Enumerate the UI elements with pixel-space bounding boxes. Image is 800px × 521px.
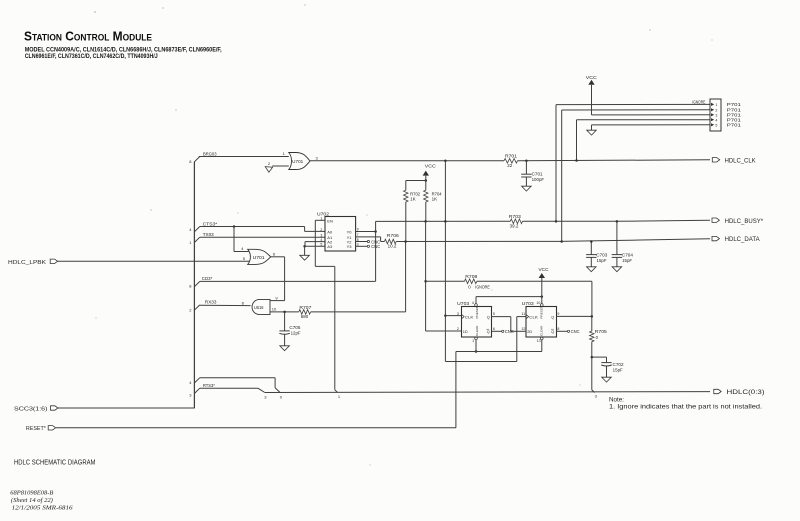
svg-text:IGNORE: IGNORE: [692, 100, 705, 105]
svg-text:1D: 1D: [463, 329, 468, 334]
svg-text:5: 5: [320, 243, 322, 247]
svg-text:11: 11: [521, 312, 525, 316]
svg-text:Y0: Y0: [347, 229, 353, 234]
svg-text:4: 4: [189, 227, 192, 232]
svg-text:12/1/2005 SMR-6816: 12/1/2005 SMR-6816: [12, 504, 74, 511]
svg-text:RTS3*: RTS3*: [203, 383, 215, 389]
svg-text:2: 2: [268, 161, 271, 166]
svg-text:13: 13: [537, 339, 541, 343]
svg-text:CTS3*: CTS3*: [203, 221, 218, 227]
svg-text:(Sheet 14 of 22): (Sheet 14 of 22): [11, 497, 53, 504]
svg-text:4: 4: [472, 301, 474, 305]
svg-text:1K: 1K: [432, 197, 438, 202]
svg-text:CLEAR: CLEAR: [539, 325, 543, 336]
svg-text:CNC: CNC: [571, 329, 580, 334]
svg-text:HDLC_LPBK: HDLC_LPBK: [8, 260, 47, 266]
svg-text:2: 2: [457, 327, 459, 331]
svg-text:BRG03: BRG03: [203, 151, 217, 157]
svg-text:C704: C704: [622, 253, 634, 258]
svg-text:CNC: CNC: [371, 244, 380, 249]
svg-text:1: 1: [189, 240, 192, 245]
svg-text:A3: A3: [327, 244, 333, 249]
svg-text:1K: 1K: [410, 197, 416, 202]
svg-text:R706: R706: [387, 233, 400, 238]
svg-text:R704: R704: [432, 191, 442, 196]
svg-text:R702: R702: [410, 191, 420, 196]
svg-text:68P81098E08-B: 68P81098E08-B: [10, 490, 53, 497]
svg-text:HDLC SCHEMATIC DIAGRAM: HDLC SCHEMATIC DIAGRAM: [14, 458, 96, 467]
svg-text:U516: U516: [254, 305, 264, 310]
svg-text:A0: A0: [327, 229, 333, 234]
svg-text:R708: R708: [465, 274, 478, 279]
svg-text:1: 1: [283, 151, 286, 156]
svg-text:Q: Q: [487, 330, 490, 334]
svg-text:7: 7: [357, 233, 359, 237]
svg-text:2D: 2D: [527, 329, 532, 334]
svg-text:P701: P701: [727, 123, 742, 128]
svg-text:1: 1: [338, 394, 341, 399]
svg-text:1. Ignore indicates that the p: 1. Ignore indicates that the part is not…: [609, 404, 762, 411]
svg-text:Q: Q: [487, 315, 490, 319]
svg-text:Station Control Module: Station Control Module: [24, 29, 152, 44]
svg-text:1: 1: [320, 217, 322, 221]
svg-text:Q: Q: [551, 315, 554, 319]
svg-text:8: 8: [557, 327, 559, 331]
svg-text:EN: EN: [327, 218, 333, 223]
svg-text:680: 680: [301, 314, 309, 319]
svg-text:CLEAR: CLEAR: [475, 325, 479, 336]
svg-text:5: 5: [243, 256, 246, 261]
svg-text:Q: Q: [551, 330, 554, 334]
svg-text:U702: U702: [317, 211, 330, 216]
svg-text:3: 3: [320, 233, 322, 237]
svg-text:15pF: 15pF: [597, 258, 607, 263]
svg-text:10: 10: [272, 306, 277, 311]
svg-text:VCC: VCC: [425, 163, 437, 168]
svg-text:6: 6: [273, 251, 276, 256]
svg-text:HDLC_DATA: HDLC_DATA: [725, 236, 761, 243]
svg-text:Note:: Note:: [609, 397, 624, 404]
svg-text:4: 4: [715, 118, 717, 122]
svg-text:10: 10: [536, 301, 540, 305]
svg-text:10.2: 10.2: [388, 244, 397, 249]
svg-text:VCC: VCC: [539, 267, 550, 272]
svg-text:3: 3: [595, 394, 598, 399]
svg-text:R707: R707: [299, 305, 312, 310]
svg-text:2: 2: [715, 108, 717, 112]
svg-text:15pF: 15pF: [622, 258, 632, 263]
svg-text:9: 9: [557, 312, 559, 316]
svg-text:1: 1: [715, 103, 717, 107]
svg-text:2: 2: [320, 228, 322, 232]
svg-text:CLN6961E/F, CLN7361C/D, CLN746: CLN6961E/F, CLN7361C/D, CLN7462C/D, TTN4…: [25, 53, 158, 60]
svg-text:0: 0: [596, 335, 599, 340]
svg-text:P701: P701: [727, 102, 742, 107]
svg-text:HDLC(0:3): HDLC(0:3): [727, 389, 765, 396]
svg-text:8: 8: [189, 159, 192, 164]
svg-text:RX33: RX33: [205, 300, 217, 306]
svg-text:2: 2: [189, 308, 192, 313]
svg-text:5: 5: [357, 238, 359, 242]
svg-text:CLK: CLK: [529, 315, 538, 320]
svg-text:R701: R701: [505, 153, 518, 158]
svg-text:39.2: 39.2: [510, 224, 519, 229]
svg-text:RESET*: RESET*: [26, 426, 46, 432]
svg-text:TX03: TX03: [203, 232, 214, 238]
svg-text:C705: C705: [289, 325, 301, 330]
svg-text:3: 3: [264, 395, 267, 400]
svg-text:U703: U703: [522, 301, 535, 306]
svg-text:12: 12: [521, 327, 525, 331]
svg-text:9: 9: [357, 228, 359, 232]
svg-text:SCC3(1:6): SCC3(1:6): [14, 406, 48, 412]
svg-text:3: 3: [457, 312, 459, 316]
svg-text:1: 1: [472, 339, 474, 343]
svg-text:PRESET: PRESET: [539, 306, 543, 318]
svg-text:IGNORE: IGNORE: [475, 284, 490, 289]
svg-text:4: 4: [241, 246, 244, 251]
svg-text:3: 3: [316, 156, 319, 161]
svg-text:CNC: CNC: [505, 329, 514, 334]
svg-text:5: 5: [493, 312, 495, 316]
svg-text:U703: U703: [457, 301, 470, 306]
svg-text:VCC: VCC: [586, 75, 598, 80]
svg-text:5: 5: [715, 123, 717, 127]
svg-text:U701: U701: [253, 255, 266, 260]
svg-text:CLK: CLK: [465, 315, 474, 320]
svg-text:4: 4: [189, 380, 192, 385]
svg-text:R703: R703: [509, 214, 522, 219]
svg-text:4: 4: [320, 238, 322, 242]
svg-text:8: 8: [242, 300, 245, 305]
svg-text:3: 3: [357, 243, 359, 247]
svg-text:HDLC_CLK: HDLC_CLK: [725, 157, 756, 164]
svg-text:Y3: Y3: [347, 244, 353, 249]
svg-text:0: 0: [280, 395, 283, 400]
svg-text:C702: C702: [613, 362, 625, 367]
svg-text:R705: R705: [595, 329, 608, 334]
svg-text:9: 9: [275, 296, 278, 301]
svg-text:CD3*: CD3*: [202, 276, 213, 282]
svg-text:3: 3: [715, 113, 717, 117]
svg-text:3: 3: [189, 392, 192, 397]
svg-text:HDLC_BUSY*: HDLC_BUSY*: [725, 218, 764, 225]
svg-text:12pF: 12pF: [291, 330, 301, 335]
svg-text:8: 8: [189, 284, 192, 289]
svg-text:22: 22: [507, 163, 513, 168]
svg-text:C701: C701: [532, 172, 544, 177]
svg-text:PRESET: PRESET: [475, 306, 479, 318]
svg-text:15pF: 15pF: [613, 367, 623, 372]
svg-text:100pF: 100pF: [532, 177, 545, 182]
svg-text:C703: C703: [596, 253, 608, 258]
svg-text:6: 6: [493, 327, 495, 331]
svg-text:0: 0: [468, 284, 471, 289]
svg-text:U701: U701: [292, 159, 304, 164]
